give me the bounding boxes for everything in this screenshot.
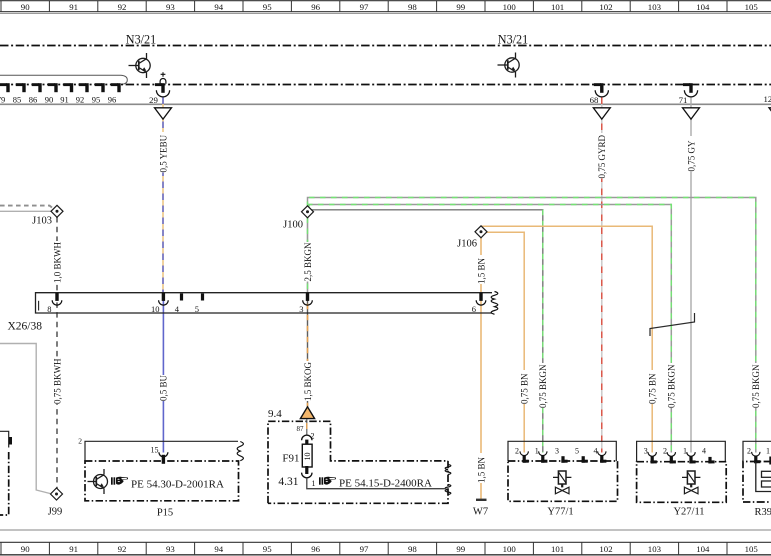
splice J106 branch 0,75 BN to Y77/1 pin 2: [485, 232, 530, 452]
N3/21 pin 96: [108, 83, 121, 104]
partial component at left edge: [0, 431, 12, 515]
svg-text:92: 92: [118, 2, 127, 12]
svg-text:2: 2: [515, 446, 519, 455]
N3/21 pin 29 socket: [149, 72, 169, 105]
splice J103 feed wires from left: [0, 206, 54, 209]
svg-text:0,75 GY: 0,75 GY: [686, 140, 696, 171]
svg-text:J103: J103: [32, 216, 52, 227]
svg-text:3: 3: [644, 447, 648, 456]
N3/21 pin 68 socket: [590, 83, 609, 105]
svg-text:1: 1: [766, 447, 770, 456]
harness separator line (lower): [0, 529, 771, 531]
wire 0,5 YEBU from N3/21 pin 29 to rail pin 10: [158, 98, 169, 293]
Y77/1 pin 1: [535, 446, 548, 462]
connector sleeve triangle at pin 12 wire (cut): [769, 108, 771, 119]
fuse F91: [278, 425, 315, 488]
svg-text:1,0 BKWH: 1,0 BKWH: [52, 242, 62, 283]
svg-text:105: 105: [745, 2, 759, 12]
svg-text:93: 93: [166, 544, 175, 554]
svg-text:1,5 BN: 1,5 BN: [476, 257, 486, 284]
P15 body (dash-dot): [85, 461, 239, 501]
svg-text:J99: J99: [48, 507, 63, 518]
svg-text:1,5 BKOG: 1,5 BKOG: [303, 361, 313, 401]
svg-text:0,75 BKGN: 0,75 BKGN: [538, 364, 548, 408]
component P15 connector box: [78, 437, 243, 462]
R39 pin 1 (cut): [766, 447, 771, 465]
internal bus rounded outline inside N3/21: [0, 75, 127, 84]
wire 1,0 BKWH from splice J103 to rail pin 8: [52, 217, 63, 293]
svg-text:0,75 GYRD: 0,75 GYRD: [597, 134, 607, 178]
F91 see-reference hand icon: [319, 477, 336, 485]
Y27/11 pin 4: [702, 447, 715, 464]
Y27/11 body (dash-dot): [637, 462, 727, 503]
svg-text:102: 102: [599, 544, 612, 554]
svg-text:10: 10: [151, 304, 160, 314]
svg-text:91: 91: [69, 544, 78, 554]
rail pin 10: [151, 293, 168, 314]
fuse block area 9.4 boundary (dash-dot): [268, 408, 451, 503]
svg-text:8: 8: [47, 304, 51, 314]
Y77/1 pin 5: [575, 446, 588, 462]
svg-text:R39: R39: [755, 507, 771, 518]
splice J99: [51, 488, 63, 500]
svg-text:12: 12: [764, 94, 771, 104]
Y77/1 pin 4: [594, 446, 607, 462]
svg-text:W7: W7: [473, 507, 488, 518]
svg-text:103: 103: [648, 544, 662, 554]
svg-text:0,75 BN: 0,75 BN: [648, 373, 658, 404]
svg-text:104: 104: [696, 2, 710, 12]
svg-text:N3/21: N3/21: [126, 33, 156, 47]
valve unit Y27/11 connector box: [637, 441, 726, 461]
R39 internal wiring and heating element: [756, 462, 771, 492]
P15 internal transistor symbol: [88, 469, 108, 494]
P15 pin 15 socket: [151, 446, 168, 464]
svg-text:96: 96: [311, 2, 320, 12]
splice J103: [51, 205, 63, 217]
ground point W7: [473, 499, 488, 518]
svg-text:2,5 BKGN: 2,5 BKGN: [303, 242, 313, 282]
R39 pin 2: [747, 447, 760, 464]
Y27/11 pin 1: [683, 447, 696, 464]
P15 see-reference hand icon: [111, 477, 128, 485]
svg-text:90: 90: [21, 2, 30, 12]
rail pin 5: [195, 294, 204, 315]
svg-text:4: 4: [702, 447, 706, 456]
transistor output stage (right) inside N3/21: [498, 53, 520, 78]
svg-text:PE 54.30-D-2001RA: PE 54.30-D-2001RA: [131, 479, 224, 491]
svg-text:X26/38: X26/38: [8, 321, 43, 333]
connector sleeve triangle at pin 68 wire: [593, 108, 610, 119]
splice J100 branch BKGN to R39 pin 2: [308, 198, 762, 453]
svg-text:98: 98: [408, 2, 417, 12]
svg-text:79: 79: [0, 95, 5, 105]
svg-text:91: 91: [69, 2, 78, 12]
N3/21 pin 86: [29, 83, 42, 104]
wire 1,5 BKOG from rail pin 3 to fuse F91: [302, 293, 313, 408]
svg-text:99: 99: [456, 544, 465, 554]
svg-text:94: 94: [214, 2, 223, 12]
svg-text:95: 95: [263, 544, 272, 554]
Y77/1 valve symbol: [553, 471, 571, 494]
svg-text:103: 103: [648, 2, 662, 12]
svg-text:2: 2: [747, 447, 751, 456]
svg-text:1: 1: [683, 447, 687, 456]
N3/21 pin 91: [60, 83, 73, 104]
svg-text:0,75 BKWH: 0,75 BKWH: [52, 358, 62, 404]
wire 0,75 BKWH from rail pin 8 to splice J99: [52, 293, 63, 489]
svg-text:3: 3: [299, 304, 303, 314]
svg-text:93: 93: [166, 2, 175, 12]
harness separator line (upper): [0, 103, 771, 105]
N3/21 pin 85: [13, 83, 26, 104]
svg-text:N3/21: N3/21: [498, 33, 528, 47]
svg-text:85: 85: [13, 95, 22, 105]
svg-text:91: 91: [60, 95, 69, 105]
splice J100 branch BKGN to Y77/1 pin 1: [312, 210, 549, 453]
svg-text:J106: J106: [457, 239, 477, 250]
splice J100 branch BKGN to Y27/11 pin 2: [309, 205, 677, 453]
feed-in arrow triangle (orange) on BKOG wire: [300, 407, 314, 419]
svg-text:5: 5: [575, 446, 579, 455]
svg-text:0,5 YEBU: 0,5 YEBU: [158, 134, 168, 172]
splice J106: [475, 226, 487, 238]
N3/21 pin 92: [76, 83, 89, 104]
Y27/11 pin 3: [644, 447, 657, 464]
ruler bottom: [0, 542, 771, 555]
Y77/1 pin 2: [515, 446, 529, 462]
svg-text:95: 95: [92, 95, 101, 105]
svg-text:86: 86: [29, 95, 38, 105]
Y27/11 valve symbol: [682, 471, 700, 494]
svg-text:105: 105: [745, 544, 759, 554]
svg-text:101: 101: [551, 544, 564, 554]
svg-text:100: 100: [503, 544, 517, 554]
svg-text:90: 90: [45, 95, 54, 105]
svg-text:0,75 BKGN: 0,75 BKGN: [751, 364, 761, 408]
svg-text:3: 3: [555, 446, 559, 455]
N3/21 pin 95: [92, 83, 105, 104]
Y27/11 pin 2: [663, 447, 676, 464]
svg-text:90: 90: [21, 544, 30, 554]
svg-text:F91: F91: [282, 453, 299, 465]
svg-text:Y77/1: Y77/1: [547, 507, 573, 518]
svg-text:95: 95: [263, 2, 272, 12]
wire stub into fuse F91 pin 2: [306, 419, 308, 435]
svg-text:5: 5: [195, 304, 199, 314]
N3/21 pin 90: [45, 83, 58, 104]
svg-text:PE 54.15-D-2400RA: PE 54.15-D-2400RA: [339, 478, 432, 490]
svg-text:P15: P15: [157, 508, 173, 519]
svg-text:6: 6: [472, 304, 476, 314]
heater element R39 connector box (cut at right): [743, 441, 771, 461]
wire 0,75 GYRD from N3/21 pin 68 to Y77/1 pin 4: [596, 98, 607, 453]
svg-text:96: 96: [311, 544, 320, 554]
wire 0,5 BU from rail pin 10 to P15 pin 15: [158, 293, 169, 453]
svg-text:1: 1: [535, 446, 539, 455]
svg-text:97: 97: [360, 544, 369, 554]
svg-text:15: 15: [151, 446, 159, 455]
control unit N3/21 top boundary: [0, 45, 771, 47]
connector sleeve triangle at pin 71 wire: [683, 108, 700, 119]
wire 1,5 BN from splice J106 through rail pin 6 to ground W7: [476, 238, 487, 500]
connector sleeve triangle at pin 29 wire: [155, 108, 172, 119]
svg-text:Y27/11: Y27/11: [673, 507, 704, 518]
svg-text:100: 100: [503, 2, 517, 12]
svg-text:94: 94: [214, 544, 223, 554]
svg-text:102: 102: [599, 2, 612, 12]
svg-text:104: 104: [696, 544, 710, 554]
svg-text:10: 10: [303, 453, 312, 461]
svg-text:2: 2: [663, 447, 667, 456]
svg-text:99: 99: [456, 2, 465, 12]
rail pin 6: [472, 293, 486, 314]
valve unit Y77/1 connector box: [508, 441, 616, 461]
N3/21 pin 79: [0, 83, 10, 104]
svg-text:0,5 BU: 0,5 BU: [159, 374, 169, 401]
svg-text:87: 87: [297, 425, 305, 433]
R39 body (dash-dot, cut): [743, 462, 771, 503]
svg-text:J100: J100: [283, 220, 303, 231]
svg-text:1: 1: [312, 479, 316, 488]
splice J99 feed wire from left: [0, 344, 50, 494]
svg-text:98: 98: [408, 544, 417, 554]
svg-text:4: 4: [594, 446, 598, 455]
wire 2,5 BKGN from splice J100 to rail pin 3: [302, 218, 313, 293]
svg-text:97: 97: [360, 2, 369, 12]
svg-text:0,75 BN: 0,75 BN: [520, 373, 530, 404]
rail pin 8: [47, 293, 62, 314]
wire 0,75 GY from N3/21 pin 71 to Y27/11 pin 1: [686, 98, 697, 453]
svg-text:101: 101: [551, 2, 564, 12]
svg-text:92: 92: [76, 95, 85, 105]
svg-text:96: 96: [108, 95, 117, 105]
svg-text:92: 92: [118, 544, 127, 554]
twisted-pair marker across Y27/11 wires: [650, 313, 695, 336]
wire from F91 pin 1 to connection (right): [307, 478, 446, 489]
svg-text:0,75 BKGN: 0,75 BKGN: [667, 364, 677, 408]
control unit N3/21 bottom boundary: [0, 84, 771, 86]
rail pin 4: [175, 294, 183, 315]
connector rail X26/38: [8, 292, 498, 333]
Y77/1 pin 3: [555, 446, 568, 462]
svg-text:9.4: 9.4: [268, 408, 282, 420]
svg-text:1,5 BN: 1,5 BN: [476, 456, 486, 483]
svg-text:2: 2: [78, 437, 82, 446]
svg-text:4.31: 4.31: [278, 476, 298, 488]
N3/21 pin 71 socket: [679, 83, 698, 105]
rail pin 3: [299, 293, 312, 314]
splice J100: [302, 206, 314, 218]
ruler top: [0, 1, 771, 14]
splice J106 branch 0,75 BN to Y27/11 pin 3: [482, 226, 658, 452]
Y77/1 body (dash-dot): [508, 461, 618, 501]
transistor output stage (left) inside N3/21: [129, 53, 151, 78]
